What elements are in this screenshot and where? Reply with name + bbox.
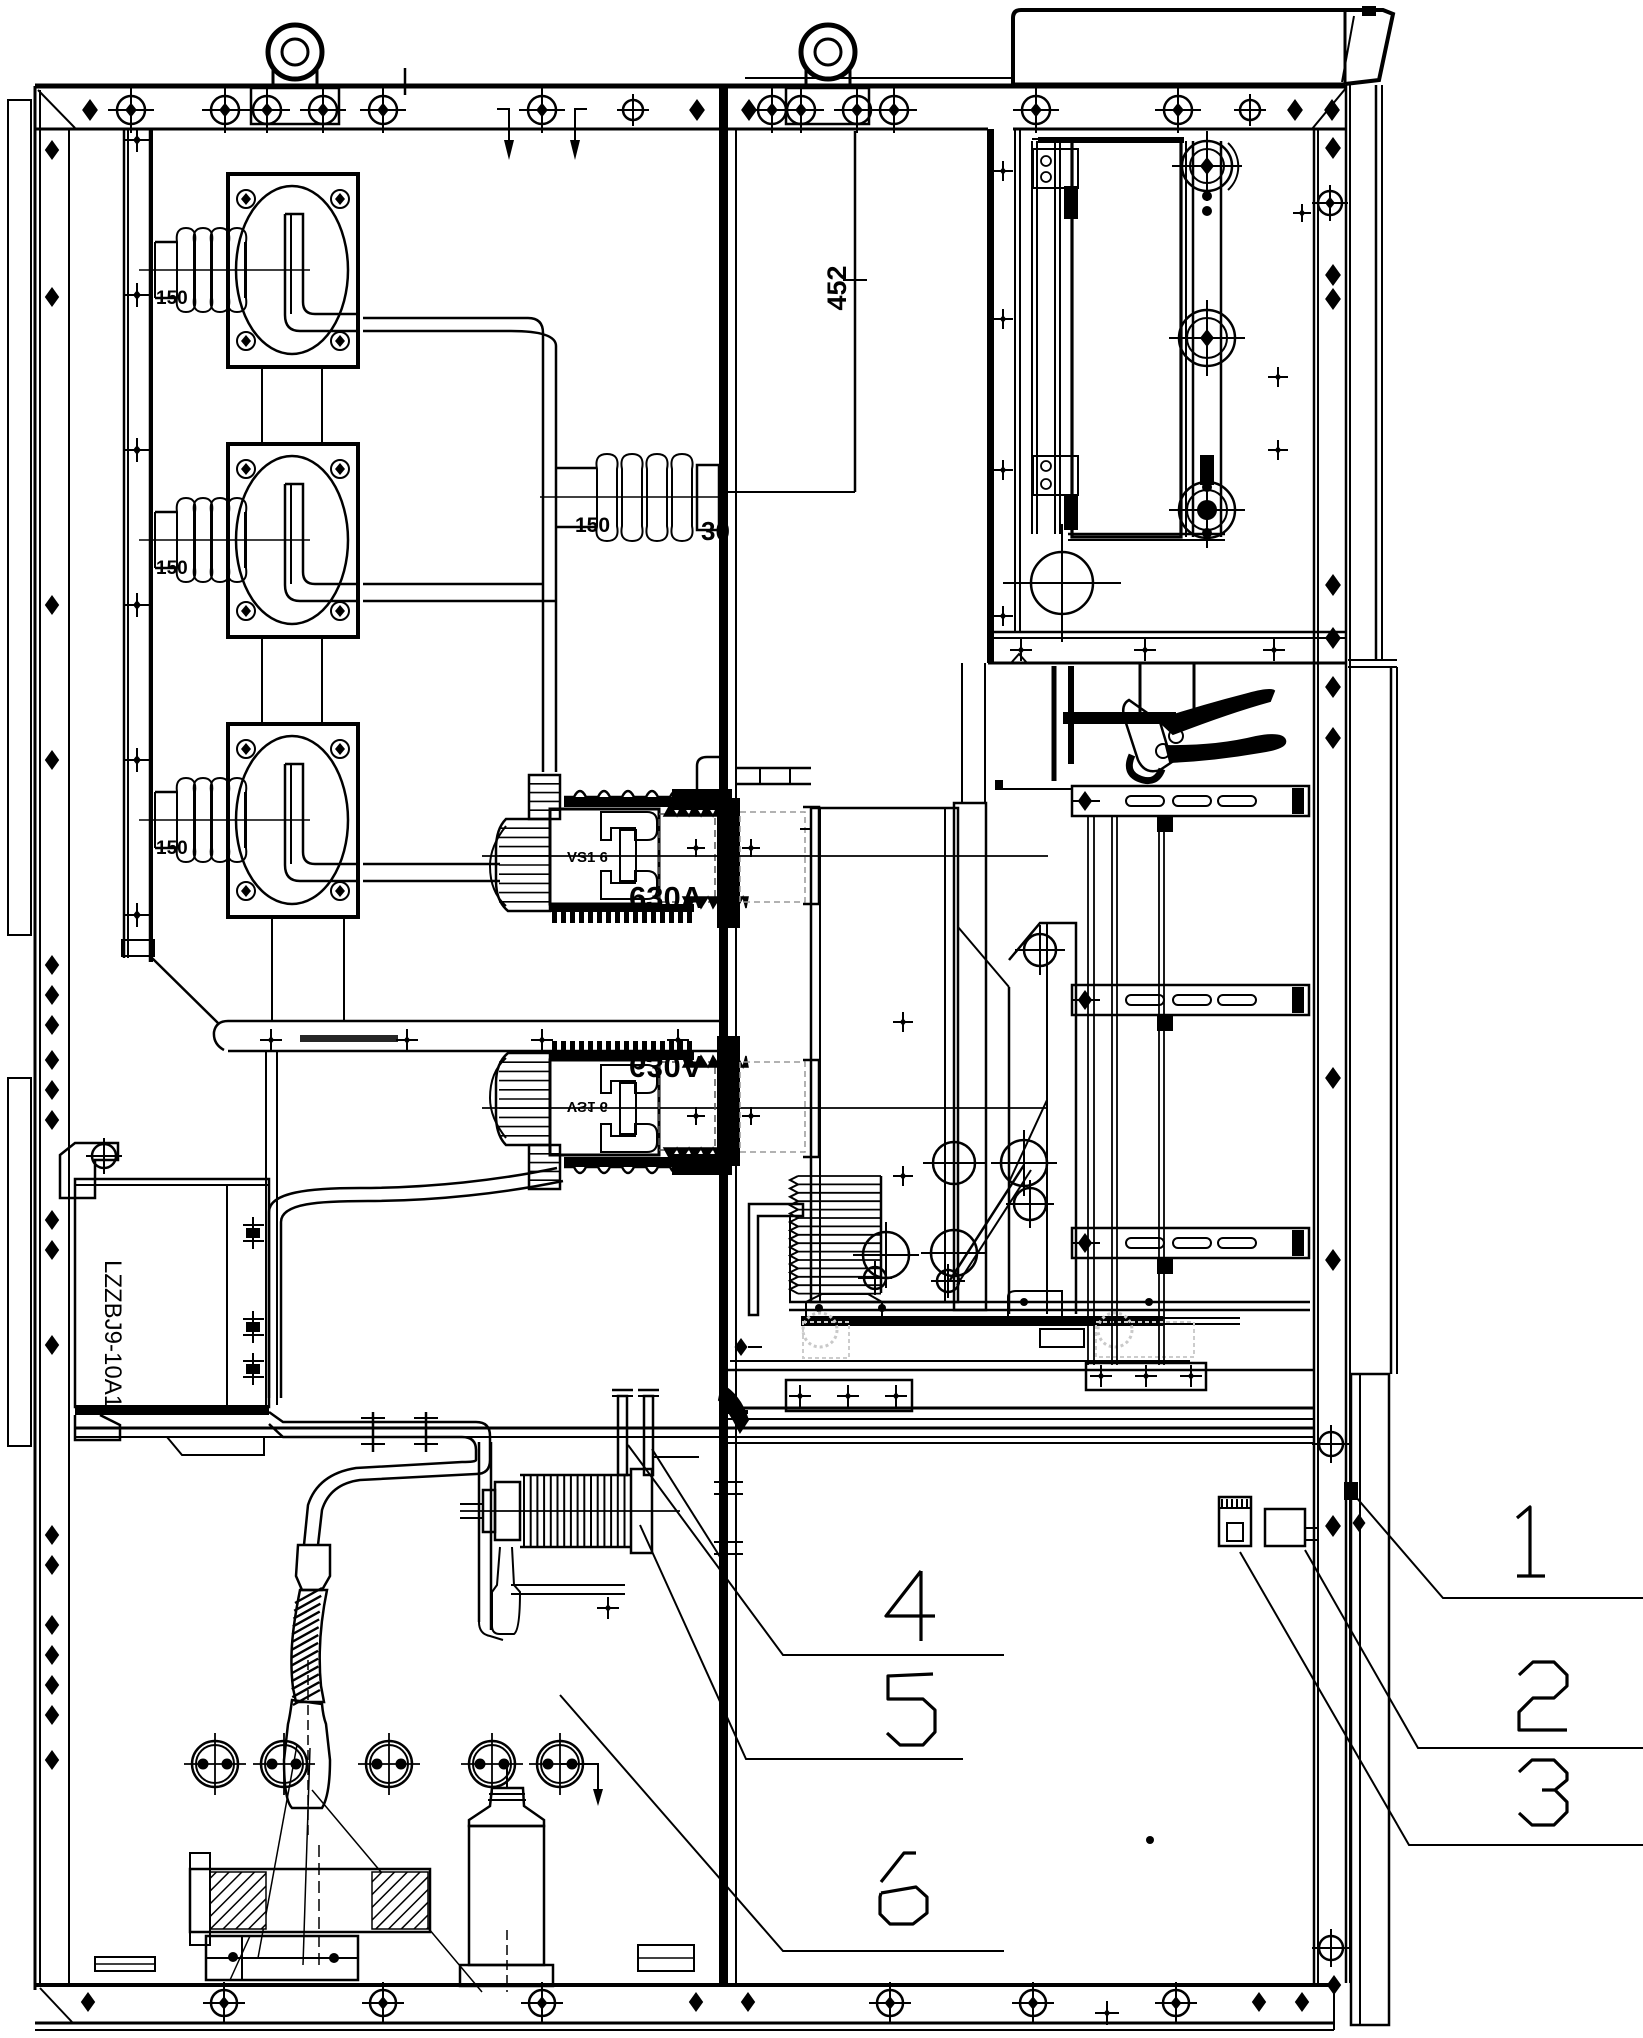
- svg-text:VS1 6: VS1 6: [567, 849, 608, 866]
- svg-text:630A: 630A: [629, 880, 703, 915]
- svg-text:LZZBJ9-10A1: LZZBJ9-10A1: [99, 1260, 126, 1408]
- svg-text:150: 150: [156, 558, 188, 579]
- svg-text:150: 150: [575, 514, 610, 537]
- svg-text:150: 150: [156, 288, 188, 309]
- svg-text:452: 452: [822, 265, 852, 310]
- svg-text:150: 150: [156, 838, 188, 859]
- svg-text:30: 30: [701, 516, 730, 546]
